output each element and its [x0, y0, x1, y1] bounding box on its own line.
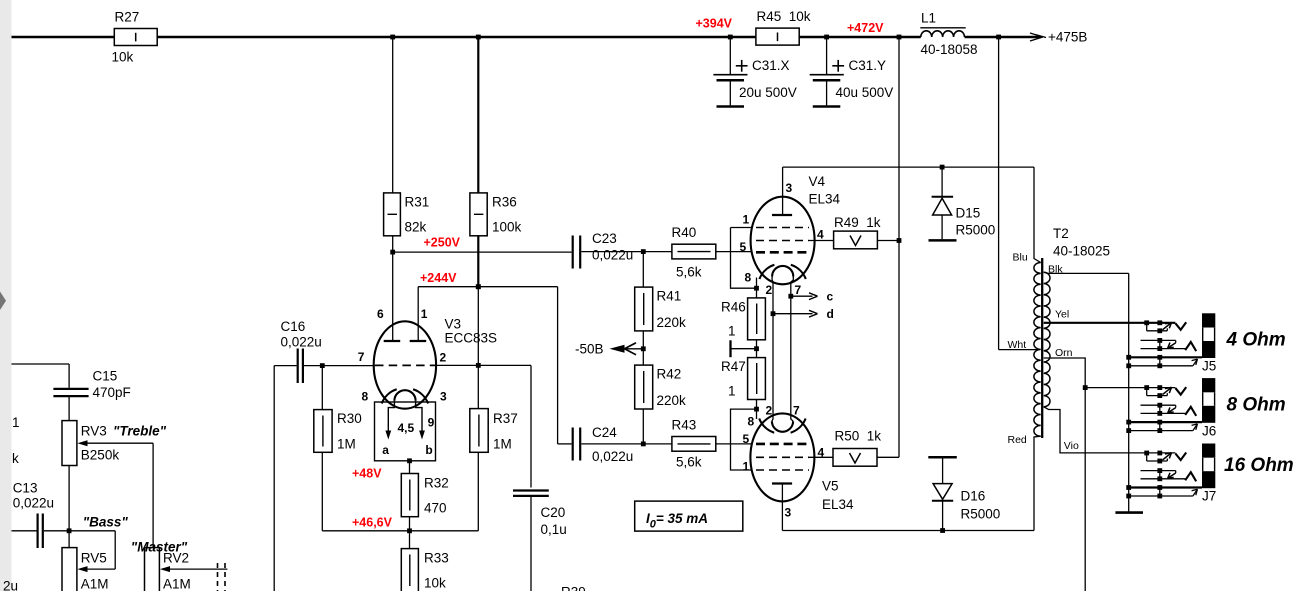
svg-text:+46,6V: +46,6V	[352, 516, 393, 530]
svg-text:3: 3	[786, 181, 793, 195]
svg-text:+472V: +472V	[847, 21, 884, 35]
svg-text:B250k: B250k	[81, 448, 120, 463]
svg-text:1M: 1M	[337, 437, 356, 452]
T2 Wht label	[1008, 339, 1027, 351]
ground symbol	[1115, 511, 1143, 514]
resistor R33 10k	[401, 549, 448, 591]
RV5 wiper arrow	[77, 566, 115, 572]
node V4 cathode junction	[754, 286, 759, 291]
wire R32 to junction	[409, 517, 411, 549]
node junction bass	[67, 528, 72, 533]
svg-text:220k: 220k	[657, 315, 687, 330]
T2 Red tap	[1008, 434, 1041, 531]
jack J7 sleeve	[1126, 485, 1202, 498]
node junction rail R31	[390, 35, 395, 40]
jack J6 tip contact	[1163, 387, 1187, 395]
resistor R27 10k	[112, 10, 158, 65]
node junction rail C31.Y +472V	[824, 35, 829, 40]
capacitor C15 470pF	[53, 369, 130, 421]
svg-text:2: 2	[440, 351, 447, 365]
jack J5 label	[1202, 359, 1216, 374]
wire V5 g2 to R50	[809, 456, 833, 458]
svg-text:40-18058: 40-18058	[921, 42, 978, 57]
svg-text:1: 1	[743, 460, 750, 474]
node label +48V	[352, 467, 382, 481]
svg-text:R30: R30	[337, 411, 362, 426]
wire heater d line	[791, 277, 794, 422]
svg-text:C23: C23	[592, 231, 617, 246]
potentiometer RV3 Treble B250k	[62, 421, 167, 466]
bias label box I0=35mA	[635, 501, 743, 531]
svg-text:2u: 2u	[3, 579, 18, 591]
node junction +46,6V	[407, 528, 412, 533]
svg-text:82k: 82k	[405, 220, 427, 235]
svg-text:100k: 100k	[492, 220, 522, 235]
tube V4 EL34 envelope	[751, 174, 841, 284]
RV2 wiper arrow	[160, 566, 228, 572]
svg-text:7: 7	[358, 350, 365, 364]
resistor R36 100k	[470, 193, 522, 236]
capacitor C20 0,1u	[513, 491, 567, 591]
svg-text:"Treble": "Treble"	[113, 424, 167, 439]
resistor R40 5,6k	[643, 225, 751, 280]
resistor R41 220k	[635, 252, 686, 331]
wire main B+ rail	[12, 36, 1042, 38]
svg-text:EL34: EL34	[822, 497, 854, 512]
svg-text:1: 1	[743, 213, 750, 227]
transformer T2 secondary winding	[1044, 272, 1050, 407]
wire grid pin7 into tube	[322, 365, 375, 367]
jack J6 tip branch	[1144, 385, 1167, 398]
svg-text:Orn: Orn	[1055, 347, 1073, 359]
wire pin2 line to C20	[435, 365, 531, 487]
svg-text:J7: J7	[1202, 489, 1216, 504]
svg-text:0,022u: 0,022u	[13, 496, 54, 511]
svg-text:2: 2	[766, 404, 773, 418]
svg-text:10k: 10k	[424, 576, 446, 591]
wire +244V to grid2/R37 column	[477, 287, 479, 409]
resistor R45 10k	[756, 9, 811, 45]
svg-text:8 Ohm: 8 Ohm	[1227, 394, 1286, 415]
node +250V junction	[390, 250, 395, 255]
wire V3 plate pin1 lead	[417, 287, 419, 341]
node +244V junction R36	[476, 284, 481, 289]
transformer T2 core	[1042, 226, 1110, 438]
sidebar strip	[0, 0, 12, 591]
svg-text:40-18025: 40-18025	[1053, 244, 1110, 259]
svg-text:Red: Red	[1008, 434, 1027, 446]
svg-text:V3: V3	[445, 317, 462, 332]
T2 Vio tap wire	[1044, 407, 1176, 453]
svg-text:R27: R27	[115, 10, 140, 25]
svg-text:C24: C24	[592, 425, 617, 440]
V3 heater lead a	[382, 401, 394, 457]
svg-text:a: a	[382, 443, 389, 457]
wire +475B to Wht tap	[999, 37, 1040, 350]
svg-text:R32: R32	[424, 476, 449, 491]
jack J6 label	[1202, 423, 1216, 438]
svg-text:A1M: A1M	[163, 577, 191, 591]
tube V4 heater arc	[772, 266, 793, 277]
resistor R46 1	[721, 298, 765, 340]
wire rail to R36	[477, 37, 479, 193]
wire R49 to screen rail	[877, 240, 899, 242]
node junction R47 V5 cathode	[731, 400, 759, 471]
node label +244V	[420, 271, 457, 285]
jack J5 tip branch	[1144, 320, 1167, 333]
svg-text:220k: 220k	[657, 393, 687, 408]
svg-text:5: 5	[743, 432, 750, 446]
svg-text:6: 6	[377, 307, 384, 321]
tube V4 cathode arc	[759, 265, 805, 279]
capacitor C31.Y 40u 500V electrolytic	[810, 37, 894, 107]
partial edge labels	[3, 415, 20, 591]
sidebar expand arrow	[0, 292, 6, 311]
tube V5 g1 dashed bold	[756, 443, 809, 446]
svg-text:1: 1	[728, 324, 736, 339]
V3 heater pin labels 4,5 9	[398, 416, 435, 436]
svg-text:RV2: RV2	[163, 551, 189, 566]
svg-text:C16: C16	[281, 319, 306, 334]
wire heater c line	[772, 277, 773, 422]
potentiometer RV2 Master A1M	[131, 540, 191, 591]
wire +46,6V crossbar	[322, 530, 478, 532]
svg-text:Wht: Wht	[1008, 339, 1027, 351]
svg-text:4,5: 4,5	[398, 421, 415, 435]
svg-text:4: 4	[817, 228, 824, 242]
wire R31 to +250V node	[392, 236, 394, 252]
node -50B junction	[641, 331, 646, 365]
inductor L1 40-18058	[920, 11, 977, 58]
svg-text:D15: D15	[956, 206, 981, 221]
svg-text:2: 2	[766, 283, 773, 297]
label 8 Ohm	[1227, 394, 1286, 415]
jack J5 body	[1202, 313, 1215, 358]
svg-text:0,022u: 0,022u	[281, 335, 322, 350]
svg-text:3: 3	[785, 506, 792, 520]
tube V5 cathode arc	[759, 419, 805, 433]
node junction C24 R42	[641, 442, 646, 447]
wire R30 to +46,6V	[321, 452, 323, 531]
node junction D15	[940, 165, 945, 170]
node label +250V	[424, 236, 461, 250]
dashed cable marks	[218, 563, 226, 591]
svg-text:C31.Y: C31.Y	[849, 58, 887, 73]
diode D15 R5000	[929, 167, 996, 240]
svg-text:1: 1	[728, 384, 736, 399]
heater tap d arrow	[771, 307, 834, 321]
T2 Yel tap wire	[1044, 309, 1176, 323]
svg-text:C15: C15	[93, 369, 118, 384]
svg-text:R33: R33	[424, 551, 449, 566]
svg-text:R49 1k: R49 1k	[834, 215, 881, 230]
svg-text:V5: V5	[822, 479, 839, 494]
svg-text:+250V: +250V	[424, 236, 461, 250]
wire screen rail vertical	[898, 37, 900, 457]
svg-text:RV5: RV5	[81, 551, 107, 566]
svg-text:D16: D16	[961, 489, 986, 504]
jack J7 label	[1202, 489, 1216, 504]
wire V3 plate pin6 lead	[392, 252, 394, 341]
svg-text:-50B: -50B	[575, 341, 604, 356]
heater tap c arrow	[788, 290, 833, 304]
node junction R46 R47 test bar	[731, 340, 759, 358]
T2 Blk tap wire	[1044, 264, 1129, 276]
node -50B arrow label	[575, 341, 643, 356]
jack J6 ring contact	[1141, 403, 1197, 416]
wire R42 to C24 node	[642, 409, 644, 444]
svg-text:10k: 10k	[112, 50, 134, 65]
wire RV3 wiper to RV2 top	[152, 443, 154, 547]
wire left edge to C15	[12, 364, 70, 388]
jack J7 ring contact	[1141, 468, 1197, 481]
node label +472V	[847, 21, 884, 35]
svg-text:R50 1k: R50 1k	[835, 429, 882, 444]
node junction rail L1 out	[996, 35, 1001, 40]
svg-text:R46: R46	[721, 300, 746, 315]
svg-text:+475B: +475B	[1048, 30, 1087, 45]
potentiometer RV5 Bass A1M	[62, 515, 128, 591]
wire V4 cathode to R46	[756, 278, 758, 298]
capacitor C16 0,022u	[274, 319, 322, 383]
svg-text:8: 8	[748, 415, 755, 429]
svg-text:R39: R39	[561, 585, 586, 591]
resistor R49 1k	[834, 215, 881, 249]
tube V5 g2 dashed	[756, 456, 809, 458]
node +475B output arrow	[1030, 30, 1087, 45]
tube V4 g3 tie to cathode	[731, 228, 757, 289]
svg-text:0,022u: 0,022u	[592, 248, 633, 263]
wire ground bus	[1128, 273, 1130, 512]
svg-text:3: 3	[440, 390, 447, 404]
jack J6 sleeve	[1126, 420, 1202, 433]
svg-text:R31: R31	[405, 195, 430, 210]
node label +394V	[696, 17, 733, 31]
resistor R32 470	[401, 474, 448, 517]
resistor R30 1M	[314, 410, 362, 453]
wire R50 to screen rail	[877, 456, 899, 458]
wire RV3 bottom to bass node	[68, 466, 70, 548]
node junction C23 R41	[641, 249, 646, 254]
jack J6 body	[1202, 378, 1215, 423]
wire Orn to J6	[1085, 387, 1175, 389]
node junction +244V R37 tap	[476, 284, 481, 289]
wire V4 plate line	[783, 166, 1034, 168]
svg-text:d: d	[827, 307, 834, 321]
transformer T2 primary winding	[1034, 263, 1041, 437]
svg-text:0,1u: 0,1u	[541, 522, 567, 537]
tube V4 g1 dashed bold	[756, 251, 809, 254]
wire +244V line	[418, 286, 557, 288]
svg-text:C31.X: C31.X	[752, 58, 790, 73]
svg-text:40u 500V: 40u 500V	[836, 85, 894, 100]
capacitor C23 0,022u	[573, 231, 644, 269]
diode D16 R5000	[928, 457, 1000, 530]
svg-text:A1M: A1M	[81, 577, 109, 591]
svg-text:+244V: +244V	[420, 271, 457, 285]
T2 Blu tap	[1013, 167, 1041, 263]
svg-text:R47: R47	[721, 359, 746, 374]
wire +244V down to C24	[558, 287, 572, 444]
node junction rail C31.X +394V	[728, 35, 733, 40]
resistor R47 1	[721, 358, 765, 400]
svg-text:4 Ohm: 4 Ohm	[1226, 330, 1286, 351]
tube V5 g3 dashed	[756, 469, 809, 471]
svg-text:+48V: +48V	[352, 467, 382, 481]
wire bass node to RV5 wiper	[69, 531, 115, 569]
svg-text:V4: V4	[809, 174, 826, 189]
wire feedback drop	[1084, 388, 1086, 591]
tube V3 heater arc	[394, 390, 415, 401]
svg-text:470: 470	[424, 501, 447, 516]
svg-text:J6: J6	[1202, 423, 1216, 438]
tube V4 g3 dashed	[756, 227, 809, 229]
svg-text:1: 1	[421, 307, 428, 321]
svg-text:R36: R36	[492, 195, 517, 210]
svg-text:C13: C13	[13, 481, 38, 496]
tube V4 plate	[772, 167, 792, 215]
wire V4 g2 to R49	[809, 240, 834, 242]
tube V4 g2 dashed	[756, 240, 809, 242]
svg-text:5,6k: 5,6k	[676, 455, 702, 470]
svg-text:+394V: +394V	[696, 17, 733, 31]
svg-text:"Bass": "Bass"	[83, 515, 129, 530]
node junction D16	[940, 528, 945, 533]
svg-text:b: b	[425, 443, 432, 457]
node junction Orn feedback	[1083, 385, 1088, 390]
wire R36 to +244V node	[477, 236, 479, 287]
svg-text:9: 9	[428, 416, 435, 430]
tube V3 pin labels	[358, 307, 447, 404]
svg-text:Blk: Blk	[1048, 264, 1063, 276]
wire +250V line to C23	[393, 251, 572, 253]
node junction C16 R30 grid	[320, 363, 325, 368]
capacitor C24 0,022u	[573, 425, 644, 464]
svg-text:c: c	[827, 290, 834, 304]
tube V3 cathode arc	[382, 389, 428, 403]
svg-text:EL34: EL34	[809, 192, 841, 207]
svg-text:R37: R37	[493, 411, 518, 426]
node V3 cathode box bottom junction	[407, 458, 412, 463]
resistor R31 82k	[384, 193, 430, 236]
svg-text:8: 8	[362, 390, 369, 404]
label 16 Ohm	[1224, 455, 1294, 476]
tube V3 ECC83S envelope	[374, 317, 497, 409]
jack J5 ring contact	[1141, 338, 1197, 351]
svg-text:5,6k: 5,6k	[676, 265, 702, 280]
jack J7 tip branch	[1144, 451, 1167, 464]
wire cathode to R32	[409, 461, 411, 474]
node junction grid pin2 R37	[476, 363, 481, 368]
wire grid pin7 node to R30	[321, 366, 323, 410]
wire rail to R31	[392, 37, 394, 193]
resistor R43 5,6k	[643, 418, 751, 470]
svg-text:Yel: Yel	[1055, 309, 1069, 321]
tube V5 heater arc	[772, 421, 793, 432]
svg-text:20u 500V: 20u 500V	[739, 85, 797, 100]
svg-text:R45 10k: R45 10k	[757, 9, 811, 24]
svg-text:ECC83S: ECC83S	[445, 331, 498, 346]
node label +46,6V	[352, 516, 393, 530]
svg-text:R5000: R5000	[956, 223, 996, 238]
svg-text:RV3: RV3	[81, 424, 107, 439]
tube V3 grid dashed	[375, 364, 435, 366]
resistor R37 1M	[470, 409, 518, 453]
svg-text:Blu: Blu	[1013, 252, 1028, 264]
wire C16 left drop	[273, 366, 275, 591]
svg-text:1: 1	[12, 415, 20, 430]
svg-text:J5: J5	[1202, 359, 1216, 374]
node junction rail R36	[476, 35, 481, 40]
tube V5 EL34 envelope	[750, 413, 854, 512]
jack J5 sleeve	[1126, 355, 1202, 368]
jack J7 body	[1202, 444, 1215, 489]
tube V5 pin labels	[743, 404, 825, 520]
svg-text:T2: T2	[1053, 226, 1069, 241]
node junction rail screen feed	[897, 35, 902, 40]
jack J7 tip contact	[1163, 453, 1187, 461]
tube V5 plate	[772, 484, 792, 531]
svg-text:k: k	[12, 451, 19, 466]
T2 Orn tap wire	[1044, 347, 1086, 388]
svg-text:R40: R40	[672, 225, 697, 240]
V3 heater lead b	[416, 401, 433, 457]
svg-text:470pF: 470pF	[93, 385, 131, 400]
RV3 wiper arrow	[77, 440, 153, 446]
svg-text:7: 7	[795, 283, 802, 297]
svg-text:7: 7	[793, 404, 800, 418]
svg-text:1M: 1M	[493, 437, 512, 452]
svg-text:R41: R41	[657, 289, 682, 304]
svg-text:5: 5	[740, 240, 747, 254]
wire V5 plate line	[782, 530, 1034, 532]
svg-text:R5000: R5000	[961, 507, 1001, 522]
resistor R42 220k	[635, 365, 686, 409]
tube V3 plate bars	[384, 340, 427, 342]
jack J5 tip contact	[1163, 322, 1187, 330]
capacitor C13 0,022u	[12, 481, 70, 549]
wire R37 to +46,6V	[477, 452, 479, 531]
svg-text:C20: C20	[541, 505, 566, 520]
svg-text:R42: R42	[657, 367, 682, 382]
svg-text:R43: R43	[672, 418, 697, 433]
svg-text:0,022u: 0,022u	[592, 449, 633, 464]
tube V4 pin labels	[740, 181, 825, 297]
svg-text:16 Ohm: 16 Ohm	[1224, 455, 1294, 476]
V3 heater connection box	[375, 402, 436, 461]
node junction screen rail R49	[897, 238, 902, 243]
resistor R39 partial label	[561, 585, 586, 591]
svg-text:L1: L1	[921, 11, 936, 26]
capacitor C31.X 20u 500V electrolytic	[713, 37, 796, 107]
label 4 Ohm	[1226, 330, 1286, 351]
svg-text:8: 8	[745, 271, 752, 285]
resistor R50 1k	[833, 429, 881, 467]
svg-text:Vio: Vio	[1064, 440, 1079, 452]
